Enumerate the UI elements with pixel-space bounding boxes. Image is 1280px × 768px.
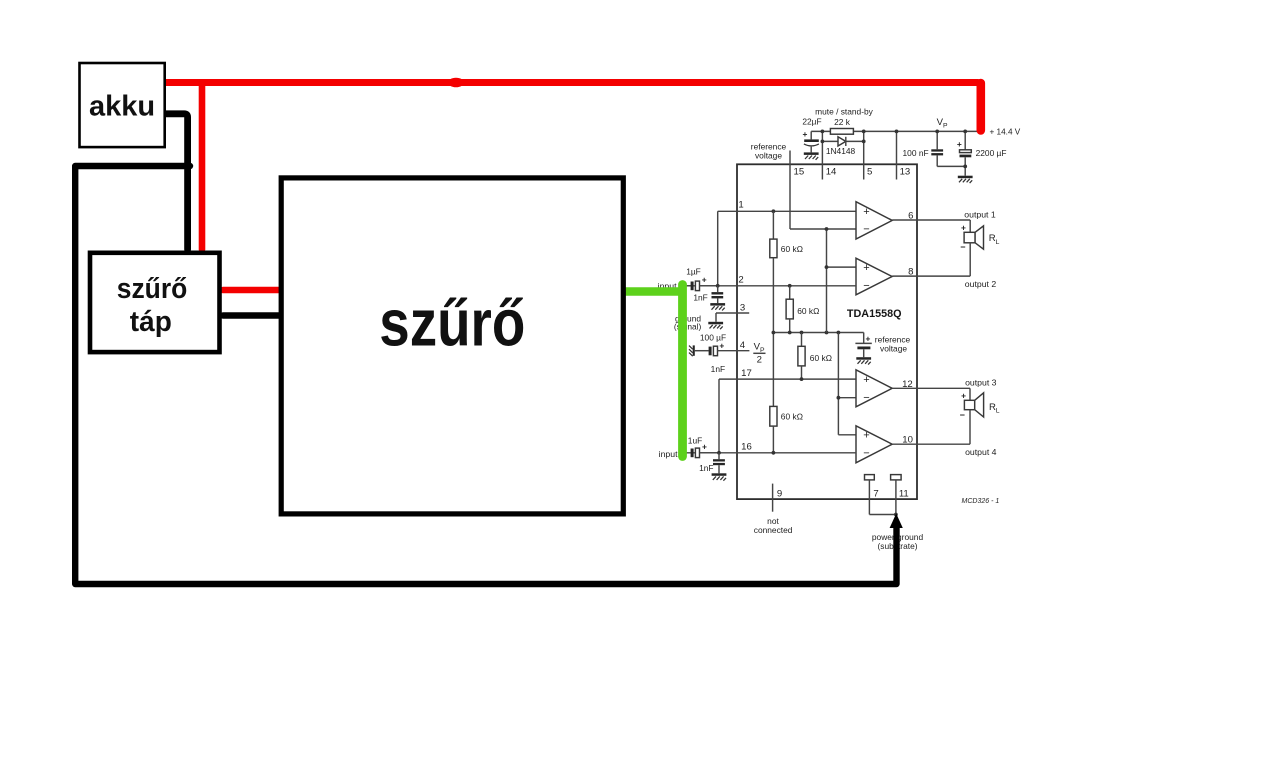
svg-text:+: + — [702, 275, 707, 285]
capacitor 1nF (bottom) — [718, 453, 720, 459]
svg-text:+: + — [866, 334, 871, 344]
svg-text:P: P — [943, 123, 948, 130]
box akku — [80, 63, 165, 147]
svg-text:MCD326 - 1: MCD326 - 1 — [962, 498, 1000, 505]
svg-text:+: + — [719, 340, 724, 350]
pin 13 — [896, 131, 898, 179]
capacitor 100nF — [936, 131, 938, 149]
svg-text:+: + — [863, 374, 869, 386]
svg-text:+: + — [961, 222, 966, 232]
wire black ground loop — [75, 166, 896, 584]
svg-text:mute / stand-by: mute / stand-by — [815, 106, 874, 116]
svg-text:(signal): (signal) — [674, 322, 702, 332]
svg-text:10: 10 — [902, 435, 913, 446]
capacitor 1nF (top) — [717, 286, 719, 292]
box szuro — [281, 178, 623, 514]
pin 6 output line — [892, 219, 970, 221]
resistor 60k R1 — [772, 211, 774, 239]
op-amp U1C — [719, 378, 856, 380]
svg-text:−: − — [863, 223, 869, 235]
svg-text:output 1: output 1 — [964, 210, 996, 220]
svg-text:−: − — [960, 242, 965, 252]
pin 8 output line — [892, 275, 970, 277]
capacitor 2200uF electrolytic — [964, 131, 966, 149]
svg-text:L: L — [996, 407, 1000, 414]
svg-text:2200 µF: 2200 µF — [976, 148, 1007, 158]
svg-text:1: 1 — [738, 200, 743, 211]
pin 10 output line — [892, 443, 970, 445]
svg-text:14: 14 — [826, 167, 837, 178]
svg-text:6: 6 — [908, 210, 913, 221]
svg-text:8: 8 — [908, 266, 913, 277]
svg-text:voltage: voltage — [880, 344, 907, 354]
svg-text:+: + — [702, 442, 707, 452]
svg-text:4: 4 — [740, 340, 746, 351]
capacitor reference voltage (internal) — [863, 333, 865, 344]
svg-text:szűrő: szűrő — [117, 273, 188, 305]
svg-text:output 3: output 3 — [965, 378, 997, 388]
op-amp U1B — [827, 266, 857, 268]
op-amp U1A — [718, 210, 856, 212]
svg-text:100 nF: 100 nF — [903, 148, 929, 158]
svg-text:+: + — [863, 206, 869, 218]
svg-text:+: + — [961, 390, 966, 400]
svg-text:+: + — [863, 430, 869, 442]
wire red szuro tap to szuro — [223, 287, 281, 294]
pin 11 tab — [891, 475, 902, 480]
svg-text:+: + — [957, 139, 962, 149]
resistor 60k R4 — [770, 406, 777, 426]
svg-text:szűrő: szűrő — [379, 286, 525, 360]
svg-text:output 2: output 2 — [965, 279, 997, 289]
ground (reference cap) — [856, 357, 871, 364]
svg-text:60 kΩ: 60 kΩ — [810, 353, 833, 363]
svg-text:−: − — [863, 392, 869, 404]
svg-text:+: + — [863, 262, 869, 274]
svg-text:+ 14.4 V: + 14.4 V — [990, 127, 1021, 136]
svg-text:13: 13 — [900, 167, 911, 178]
ground (2200uF) — [958, 176, 973, 183]
box szuro tap — [90, 253, 220, 352]
svg-text:L: L — [996, 239, 1000, 246]
svg-text:voltage: voltage — [755, 151, 782, 161]
svg-text:+: + — [803, 129, 808, 139]
svg-text:16: 16 — [741, 441, 752, 452]
svg-text:−: − — [960, 410, 965, 420]
svg-text:connected: connected — [754, 525, 793, 535]
svg-text:1µF: 1µF — [686, 266, 701, 276]
svg-text:17: 17 — [741, 368, 752, 379]
svg-text:TDA1558Q: TDA1558Q — [847, 308, 902, 320]
internal reference rail Vp/2 — [773, 332, 863, 334]
diode 1N4148 — [822, 140, 863, 142]
pin 3 ground signal — [716, 312, 749, 314]
svg-text:22µF: 22µF — [802, 116, 821, 126]
pin 15 reference-voltage line into - input of U1A — [789, 151, 791, 230]
svg-text:akku: akku — [89, 90, 155, 122]
svg-text:12: 12 — [902, 379, 913, 390]
wire red battery positive rail — [162, 79, 978, 86]
svg-text:1N4148: 1N4148 — [826, 146, 856, 156]
wire green szuro output horizontal — [625, 287, 679, 295]
resistor 60k R3 — [801, 333, 803, 347]
ground (pin 3) — [708, 322, 723, 329]
svg-text:2: 2 — [757, 355, 762, 366]
pin 12 output line — [892, 387, 970, 389]
svg-text:−: − — [863, 280, 869, 292]
pin 2 input line — [687, 285, 856, 287]
svg-text:1nF: 1nF — [699, 463, 713, 473]
wire -OA1 to +OA2 to rail — [826, 229, 828, 333]
svg-text:1uF: 1uF — [688, 435, 702, 445]
resistor 22k — [830, 129, 853, 135]
wire black szuro tap to szuro — [223, 312, 283, 318]
wire joining pins 7 and 11 — [869, 514, 896, 516]
IC TDA1558Q body outline — [737, 164, 917, 499]
svg-text:−: − — [863, 448, 869, 460]
svg-text:60 kΩ: 60 kΩ — [781, 411, 804, 421]
svg-text:táp: táp — [130, 306, 172, 338]
svg-text:15: 15 — [794, 167, 805, 178]
svg-text:22 k: 22 k — [834, 117, 851, 127]
svg-text:1nF: 1nF — [693, 292, 707, 302]
svg-text:7: 7 — [873, 488, 878, 499]
svg-text:60 kΩ: 60 kΩ — [797, 306, 820, 316]
ground (1nF top) — [710, 303, 725, 310]
svg-text:input: input — [659, 449, 678, 459]
svg-text:output 4: output 4 — [965, 447, 997, 457]
pin 9 not connected — [772, 484, 774, 512]
svg-text:3: 3 — [740, 303, 745, 314]
svg-text:2: 2 — [738, 274, 743, 285]
pin 5 — [863, 131, 865, 179]
wire black akku to szuro tap — [161, 114, 188, 250]
arrowhead ground wire at pins 7/11 — [890, 514, 903, 529]
junction dots mute circuit — [821, 130, 825, 134]
svg-text:60 kΩ: 60 kΩ — [781, 244, 804, 254]
pin 14 — [821, 131, 823, 179]
ground (22uF) — [804, 152, 819, 159]
svg-text:11: 11 — [899, 488, 909, 499]
pin 7 tab — [865, 475, 875, 480]
resistor 60k R2 — [788, 284, 792, 288]
wire rail to -OA3 and +OA4 — [837, 333, 839, 435]
svg-text:9: 9 — [777, 488, 782, 499]
wire red akku to szuro tap — [199, 83, 206, 250]
wire Vp top rail — [811, 130, 984, 132]
svg-text:1nF: 1nF — [711, 364, 725, 374]
ground (1nF bottom) — [712, 473, 727, 480]
wire green vertical to inputs — [678, 285, 687, 457]
op-amp U1D — [838, 434, 856, 436]
pin 16 input line — [687, 452, 857, 454]
svg-text:5: 5 — [867, 167, 872, 178]
